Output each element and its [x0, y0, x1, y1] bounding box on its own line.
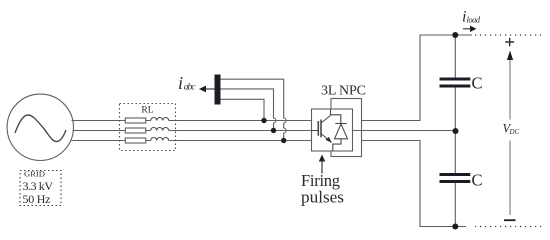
svg-text:pulses: pulses: [301, 187, 344, 206]
svg-text:DC: DC: [509, 128, 520, 136]
svg-text:3.3 kV: 3.3 kV: [23, 179, 54, 193]
svg-text:load: load: [467, 14, 481, 24]
svg-text:abc: abc: [184, 82, 196, 92]
svg-text:GRID: GRID: [24, 170, 46, 179]
svg-text:C: C: [472, 74, 483, 93]
svg-text:3L NPC: 3L NPC: [321, 84, 366, 99]
svg-text:i: i: [178, 73, 183, 93]
svg-text:RL: RL: [141, 106, 153, 116]
svg-text:50 Hz: 50 Hz: [23, 192, 51, 206]
svg-text:C: C: [472, 170, 483, 189]
